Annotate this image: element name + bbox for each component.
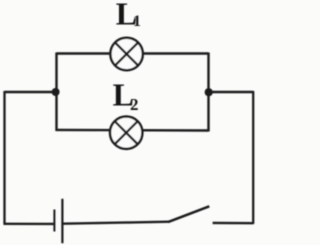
battery cell B1 negative plate bbox=[53, 210, 55, 232]
wire switch right contact stub bbox=[213, 222, 254, 225]
lamp L2 bbox=[110, 117, 142, 149]
svg-text:2: 2 bbox=[130, 95, 139, 114]
wire bottom left (to battery) bbox=[4, 223, 54, 225]
lamp L1 bbox=[110, 38, 142, 70]
label L2 bbox=[113, 77, 139, 115]
wire right feeder horizontal bbox=[209, 91, 254, 93]
wire top branch (L1 branch horizontal) bbox=[57, 52, 209, 54]
wire left inner vertical bbox=[55, 53, 57, 132]
wire left feeder horizontal bbox=[5, 91, 57, 93]
wire left outer vertical bbox=[3, 91, 5, 224]
wire right outer vertical bbox=[252, 91, 254, 224]
node left junction bbox=[52, 88, 60, 96]
svg-text:1: 1 bbox=[133, 13, 141, 30]
wire L2 branch horizontal bbox=[56, 129, 209, 132]
battery cell B1 positive plate bbox=[61, 199, 63, 243]
node right junction bbox=[205, 88, 213, 96]
switch S1 lever (open) bbox=[168, 206, 209, 222]
wire right inner vertical bbox=[207, 53, 209, 132]
label L1 bbox=[116, 0, 141, 32]
wire bottom middle (battery to switch) bbox=[62, 222, 169, 224]
